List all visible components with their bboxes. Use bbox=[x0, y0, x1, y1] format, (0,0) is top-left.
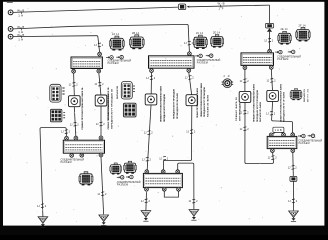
wire unit B to lower box bbox=[100, 106, 102, 136]
wire to ground 1 bbox=[41, 204, 44, 217]
hash label wire 2 bbox=[184, 41, 194, 45]
svg-text:2E 14: 2E 14 bbox=[281, 28, 289, 31]
wire box2 right drop to unit D bbox=[189, 72, 192, 94]
ground 2 bbox=[99, 215, 109, 226]
label connector pair 2 bbox=[197, 59, 221, 64]
svg-text:ПЕРЕДНИЙ ЖГУТ 2F ФАРА: ПЕРЕДНИЙ ЖГУТ 2F ФАРА bbox=[283, 92, 286, 122]
svg-text:РАЗЪЕМ 2В: РАЗЪЕМ 2В bbox=[116, 86, 119, 99]
wire to box 3 top pin bbox=[269, 32, 271, 50]
junction box 3 bbox=[241, 49, 274, 69]
wire unit E long drop and elbow to box D bbox=[245, 102, 274, 163]
hash labels above center box bbox=[142, 157, 152, 161]
svg-text:ПРАВАЯ ФАРА 2Е: ПРАВАЯ ФАРА 2Е bbox=[235, 96, 238, 121]
svg-text:РАЗЪЕМ: РАЗЪЕМ bbox=[117, 184, 128, 187]
inline connector on ground 5 wire bbox=[290, 176, 297, 181]
connector pair right of box D bbox=[298, 134, 305, 138]
label wire 2 bbox=[17, 25, 24, 34]
wire box2 left drop to unit C bbox=[150, 73, 152, 94]
svg-text:ПЕРЕДНИЙ ЖГУТ ПРОВОДОВ: ПЕРЕДНИЙ ЖГУТ ПРОВОДОВ bbox=[173, 89, 176, 119]
lower right junction box D bbox=[267, 133, 297, 153]
wire unit A to lower box bbox=[74, 107, 76, 136]
svg-text:ПРОТИВОТУМАННАЯ ФАРА: ПРОТИВОТУМАННАЯ ФАРА bbox=[107, 94, 110, 120]
fog lamp unit D bbox=[186, 95, 198, 106]
svg-text:ПЕРЕДНИЙ ЖГУТ ПРОВОДОВ: ПЕРЕДНИЙ ЖГУТ ПРОВОДОВ bbox=[163, 94, 166, 122]
svg-text:1H: 1H bbox=[18, 38, 23, 42]
svg-text:РАЗЪЕМ 2G: РАЗЪЕМ 2G bbox=[303, 89, 306, 102]
wire 3 run and drop to box 1 bbox=[13, 36, 100, 53]
wire unit D down and elbow bbox=[163, 106, 191, 170]
hash label ground wire 1 bbox=[37, 204, 47, 208]
svg-text:РАЗЪЕМ 2D ФАРА: РАЗЪЕМ 2D ФАРА bbox=[206, 95, 209, 117]
wire continues to ground 5 bbox=[292, 181, 294, 210]
grid connector icon left margin 2 bbox=[50, 109, 62, 122]
wire box3 right drop to unit F bbox=[271, 69, 272, 90]
svg-text:ПРАВАЯ ПРОТИВОТУМАННАЯ ФАРА: ПРАВАЯ ПРОТИВОТУМАННАЯ ФАРА bbox=[160, 86, 163, 122]
label connector pair lower center bbox=[117, 181, 141, 187]
hash label 1J bbox=[264, 38, 274, 42]
relay pictogram lower center 1 bbox=[110, 163, 122, 175]
lower junction box B bbox=[63, 136, 104, 157]
wire box3 left drop to unit E bbox=[244, 70, 246, 92]
connector pair lower center bbox=[117, 176, 124, 180]
junction box 2 bbox=[149, 52, 195, 73]
svg-text:РАЗЪЕМ: РАЗЪЕМ bbox=[277, 58, 288, 61]
label connector pair 3 bbox=[277, 55, 301, 61]
relay pictogram top row 3 bbox=[193, 32, 207, 49]
ground 3 bbox=[141, 211, 151, 222]
svg-text:ПЕРЕДНИЙ ЖГУТ ПРОВОДОВ: ПЕРЕДНИЙ ЖГУТ ПРОВОДОВ bbox=[256, 90, 259, 122]
terminal A (battery feed 1) bbox=[8, 10, 13, 15]
svg-text:ЛЕВАЯ ПРОТИВОТУМАННАЯ ФАРА: ЛЕВАЯ ПРОТИВОТУМАННАЯ ФАРА bbox=[279, 84, 282, 122]
round connector icon right-center bbox=[222, 75, 234, 87]
relay pictogram right margin bbox=[290, 89, 302, 101]
svg-text:W-B: W-B bbox=[218, 1, 225, 5]
wire box1 left drop to unit A bbox=[73, 73, 76, 96]
label lower box B bbox=[61, 158, 85, 164]
svg-text:2A 14: 2A 14 bbox=[112, 33, 120, 36]
connector face icon center 1 bbox=[121, 82, 135, 100]
wire 1 drop to box 3 bbox=[269, 5, 271, 23]
relay pictogram top row 2 bbox=[129, 32, 144, 49]
svg-text:РАЗЪЕМ: РАЗЪЕМ bbox=[299, 142, 310, 145]
relay pictogram top row 4 bbox=[210, 31, 223, 47]
jumper bracket under center box bbox=[164, 192, 178, 198]
svg-text:2C 14: 2C 14 bbox=[196, 32, 204, 35]
grid connector icon center 2 bbox=[123, 103, 136, 117]
wire 1 horizontal run bbox=[13, 7, 178, 12]
terminal C (feed 3) bbox=[8, 34, 13, 39]
hash label ground 4 wire bbox=[189, 199, 199, 203]
connector face icon left margin 1 bbox=[50, 84, 65, 102]
inline connector J1 on wire 1 bbox=[178, 4, 189, 10]
junction box 1 bbox=[71, 52, 102, 73]
inline connector J2 bbox=[265, 23, 273, 31]
connector pair right of box 1 bbox=[106, 56, 113, 60]
center junction box C bbox=[143, 170, 182, 191]
ground branch wire from lower box B to left bbox=[40, 128, 66, 204]
label connector pair 1 bbox=[108, 60, 132, 66]
wire lower box B to ground 2 bbox=[101, 157, 104, 215]
svg-text:РАЗЪЕМ: РАЗЪЕМ bbox=[61, 161, 72, 164]
relay pictogram top row 5 bbox=[278, 28, 292, 44]
svg-text:2F 14: 2F 14 bbox=[299, 24, 307, 27]
svg-text:ЖГУТ 2G: ЖГУТ 2G bbox=[308, 89, 310, 102]
label connector pair box D bbox=[299, 140, 323, 146]
fog lamp unit C bbox=[145, 94, 157, 105]
small component 1HB above box D bbox=[272, 127, 284, 134]
svg-text:ЛЕВАЯ ПРОТИВОТУМАННАЯ ФАРА: ЛЕВАЯ ПРОТИВОТУМАННАЯ ФАРА bbox=[200, 83, 203, 117]
connector pair right of box 2 bbox=[195, 54, 202, 58]
ground 4 bbox=[189, 210, 199, 221]
connector pair right of box 3 bbox=[275, 50, 282, 54]
svg-text:РАЗЪЕМ 2E ФАРА: РАЗЪЕМ 2E ФАРА bbox=[259, 102, 262, 122]
fog lamp unit B bbox=[95, 95, 107, 106]
fog lamp unit E bbox=[239, 91, 251, 102]
ground 1 bbox=[38, 217, 48, 228]
relay pictogram lower center 2 bbox=[124, 161, 137, 174]
relay pictogram top row 6 bbox=[296, 24, 311, 41]
svg-text:2B 14: 2B 14 bbox=[132, 32, 140, 35]
svg-text:РАЗЪЕМ: РАЗЪЕМ bbox=[108, 62, 119, 65]
label wire 3 bbox=[17, 33, 24, 42]
svg-text:ПЕРЕДНИЙ ЖГУТ ПРОВОДОВ 2В: ПЕРЕДНИЙ ЖГУТ ПРОВОДОВ 2В bbox=[110, 89, 113, 129]
svg-text:РАЗЪЕМ: РАЗЪЕМ bbox=[197, 62, 208, 65]
relay pictogram lower left bbox=[79, 172, 93, 186]
svg-text:ПРАВАЯ ПРОТИВОТУМАННАЯ ФАРА 2А: ПРАВАЯ ПРОТИВОТУМАННАЯ ФАРА 2А bbox=[81, 87, 84, 129]
wire box1 right drop to unit B bbox=[99, 73, 101, 95]
ground 5 bbox=[289, 211, 299, 222]
svg-text:1НВ: 1НВ bbox=[275, 128, 282, 132]
fog lamp unit F bbox=[267, 90, 279, 101]
svg-text:ПРОВОДОВ 2D РАЗЪЕМ: ПРОВОДОВ 2D РАЗЪЕМ bbox=[176, 93, 179, 119]
label wire 1 mid bbox=[218, 1, 225, 10]
wire unit F elbow to box D bbox=[272, 101, 293, 133]
terminal B (feed 2) bbox=[8, 27, 13, 32]
svg-text:1H: 1H bbox=[18, 13, 23, 17]
label wire 1 color code bbox=[17, 9, 24, 18]
fog lamp unit A bbox=[69, 96, 81, 107]
wire box D to ground 5 bbox=[292, 153, 295, 177]
wire 1 continues bbox=[189, 5, 269, 7]
wire unit C down to center box bbox=[147, 105, 151, 170]
svg-text:ПРАВАЯ ПРОТИВОТУМАННАЯ ФАРА: ПРАВАЯ ПРОТИВОТУМАННАЯ ФАРА bbox=[252, 84, 255, 122]
relay pictogram group top row 1 bbox=[110, 33, 125, 50]
svg-text:ЛЕВАЯ ПРОТИВОТУМ. ФАРА: ЛЕВАЯ ПРОТИВОТУМ. ФАРА bbox=[196, 88, 199, 118]
wire 2 run and drop to box 2 bbox=[13, 24, 189, 51]
wire center box to ground 3 bbox=[145, 192, 148, 211]
branch to third pin of center box and ground 4 feed bbox=[178, 163, 194, 209]
hash label wire 3 bbox=[94, 43, 104, 47]
svg-text:ПЕРЕДНИЙ ЖГУТ ПРОВОДОВ: ПЕРЕДНИЙ ЖГУТ ПРОВОДОВ bbox=[203, 87, 206, 117]
svg-text:2D 14: 2D 14 bbox=[213, 31, 221, 34]
